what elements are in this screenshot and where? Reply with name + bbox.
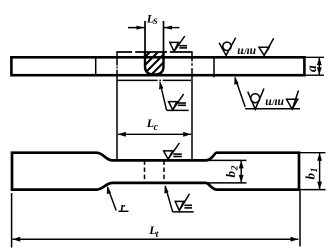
svg-text:t: t [156, 230, 159, 240]
leader arrow for radius r [108, 187, 117, 211]
svg-text:или: или [237, 45, 256, 57]
label b2 [223, 165, 241, 177]
S2 baseline shelf [167, 109, 189, 111]
hidden nugget dashed line right [163, 160, 165, 183]
leader arrow to faying line for S2 [160, 82, 167, 110]
plate lap end line left [95, 57, 97, 75]
b2 dimension line with arrows [240, 160, 242, 183]
svg-text:b: b [303, 173, 318, 180]
Lt extension line left [11, 193, 13, 248]
svg-text:b: b [223, 171, 238, 178]
svg-text:c: c [154, 122, 159, 133]
svg-text:a: a [304, 65, 319, 72]
G2 shelf [245, 108, 300, 110]
leader arrow for lower group G2 [235, 78, 245, 108]
Ls dimension line with arrows [128, 27, 145, 29]
roughness group G1: circle-check, or, check on bar top [219, 38, 236, 56]
weld nugget hatched [126, 48, 186, 76]
b1 dimension line with arrows [319, 153, 321, 190]
cover strip left edge / Lc extension left [116, 51, 118, 160]
hidden nugget dashed line left [144, 160, 146, 183]
b1 extension lines [299, 152, 326, 154]
G2 plain check [287, 91, 299, 110]
main bar outline (side view plate) [11, 57, 304, 75]
Lt extension line right [299, 191, 301, 247]
svg-text:1: 1 [310, 168, 320, 173]
label b1 [303, 168, 321, 180]
S5 shelf [173, 211, 194, 213]
roughness symbol S1 on cover strip [170, 36, 187, 51]
dimension a extension lines [304, 56, 324, 58]
b2 extension lines [206, 159, 247, 161]
cover strip right edge / Lc extension right [191, 51, 193, 159]
Lt dimension line with arrows [13, 238, 299, 240]
dogbone specimen outline (plan view) [12, 153, 299, 190]
svg-text:2: 2 [231, 165, 241, 171]
dimension a line with arrows [318, 57, 320, 75]
roughness symbol S2 below bar [169, 94, 186, 110]
svg-text:S: S [153, 16, 158, 26]
faying surface dash-dot line [117, 79, 191, 81]
Lc dimension line with arrows [118, 133, 191, 135]
cover strip top edge [117, 51, 192, 53]
plain check symbol top [259, 38, 274, 55]
Ls extension line left [144, 21, 146, 52]
leader arrow for S5 [165, 186, 173, 212]
roughness symbol S4 on gauge top edge [164, 143, 182, 159]
plate lap end line right [213, 56, 215, 77]
Ls extension line right [163, 21, 165, 52]
svg-text:или: или [265, 96, 284, 108]
roughness symbol S5 below gauge [175, 194, 192, 211]
weld nugget outline [145, 52, 164, 75]
G2 circle-check [248, 89, 264, 110]
